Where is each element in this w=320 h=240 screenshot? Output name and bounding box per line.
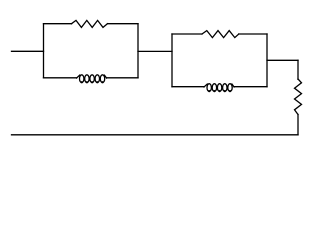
wire: block-1 bottom edge, right segment <box>107 77 138 79</box>
wire: block-2 right vertical edge <box>266 34 268 87</box>
wire: input lead (top-left terminal) <box>12 50 44 52</box>
resistor R2 (top branch of second parallel block) <box>202 31 239 38</box>
wire: block-1 top edge, right segment <box>108 23 139 25</box>
inductor L2 (bottom branch of second parallel block) <box>204 84 234 93</box>
inductor L1 (bottom branch of first parallel block) <box>77 75 107 84</box>
wire: block-2 bottom edge, right segment <box>234 86 267 88</box>
resistor R1 (top branch of first parallel block) <box>72 20 108 27</box>
resistor R3 (vertical resistor, right branch) <box>295 79 302 115</box>
wire: block-1 right vertical edge <box>137 24 139 78</box>
wire: block-2 left vertical edge <box>171 34 173 87</box>
wire: block-2 top edge, right segment <box>239 33 267 35</box>
wire: output lead from block 2 to right branch <box>267 59 298 61</box>
wire: bottom return wire (bottom-left terminal) <box>12 134 299 136</box>
wire: block-2 bottom edge, left segment <box>172 86 204 88</box>
wire: block-1 left vertical edge <box>43 24 45 78</box>
wire: block-1 bottom edge, left segment <box>44 77 77 79</box>
wire: block-1 top edge, left segment <box>44 23 72 25</box>
wire: right branch vertical, above resistor <box>297 60 299 79</box>
wire: right branch vertical, below resistor <box>297 115 299 135</box>
wire: connector between block 1 and block 2 <box>138 50 172 52</box>
wire: block-2 top edge, left segment <box>172 33 202 35</box>
